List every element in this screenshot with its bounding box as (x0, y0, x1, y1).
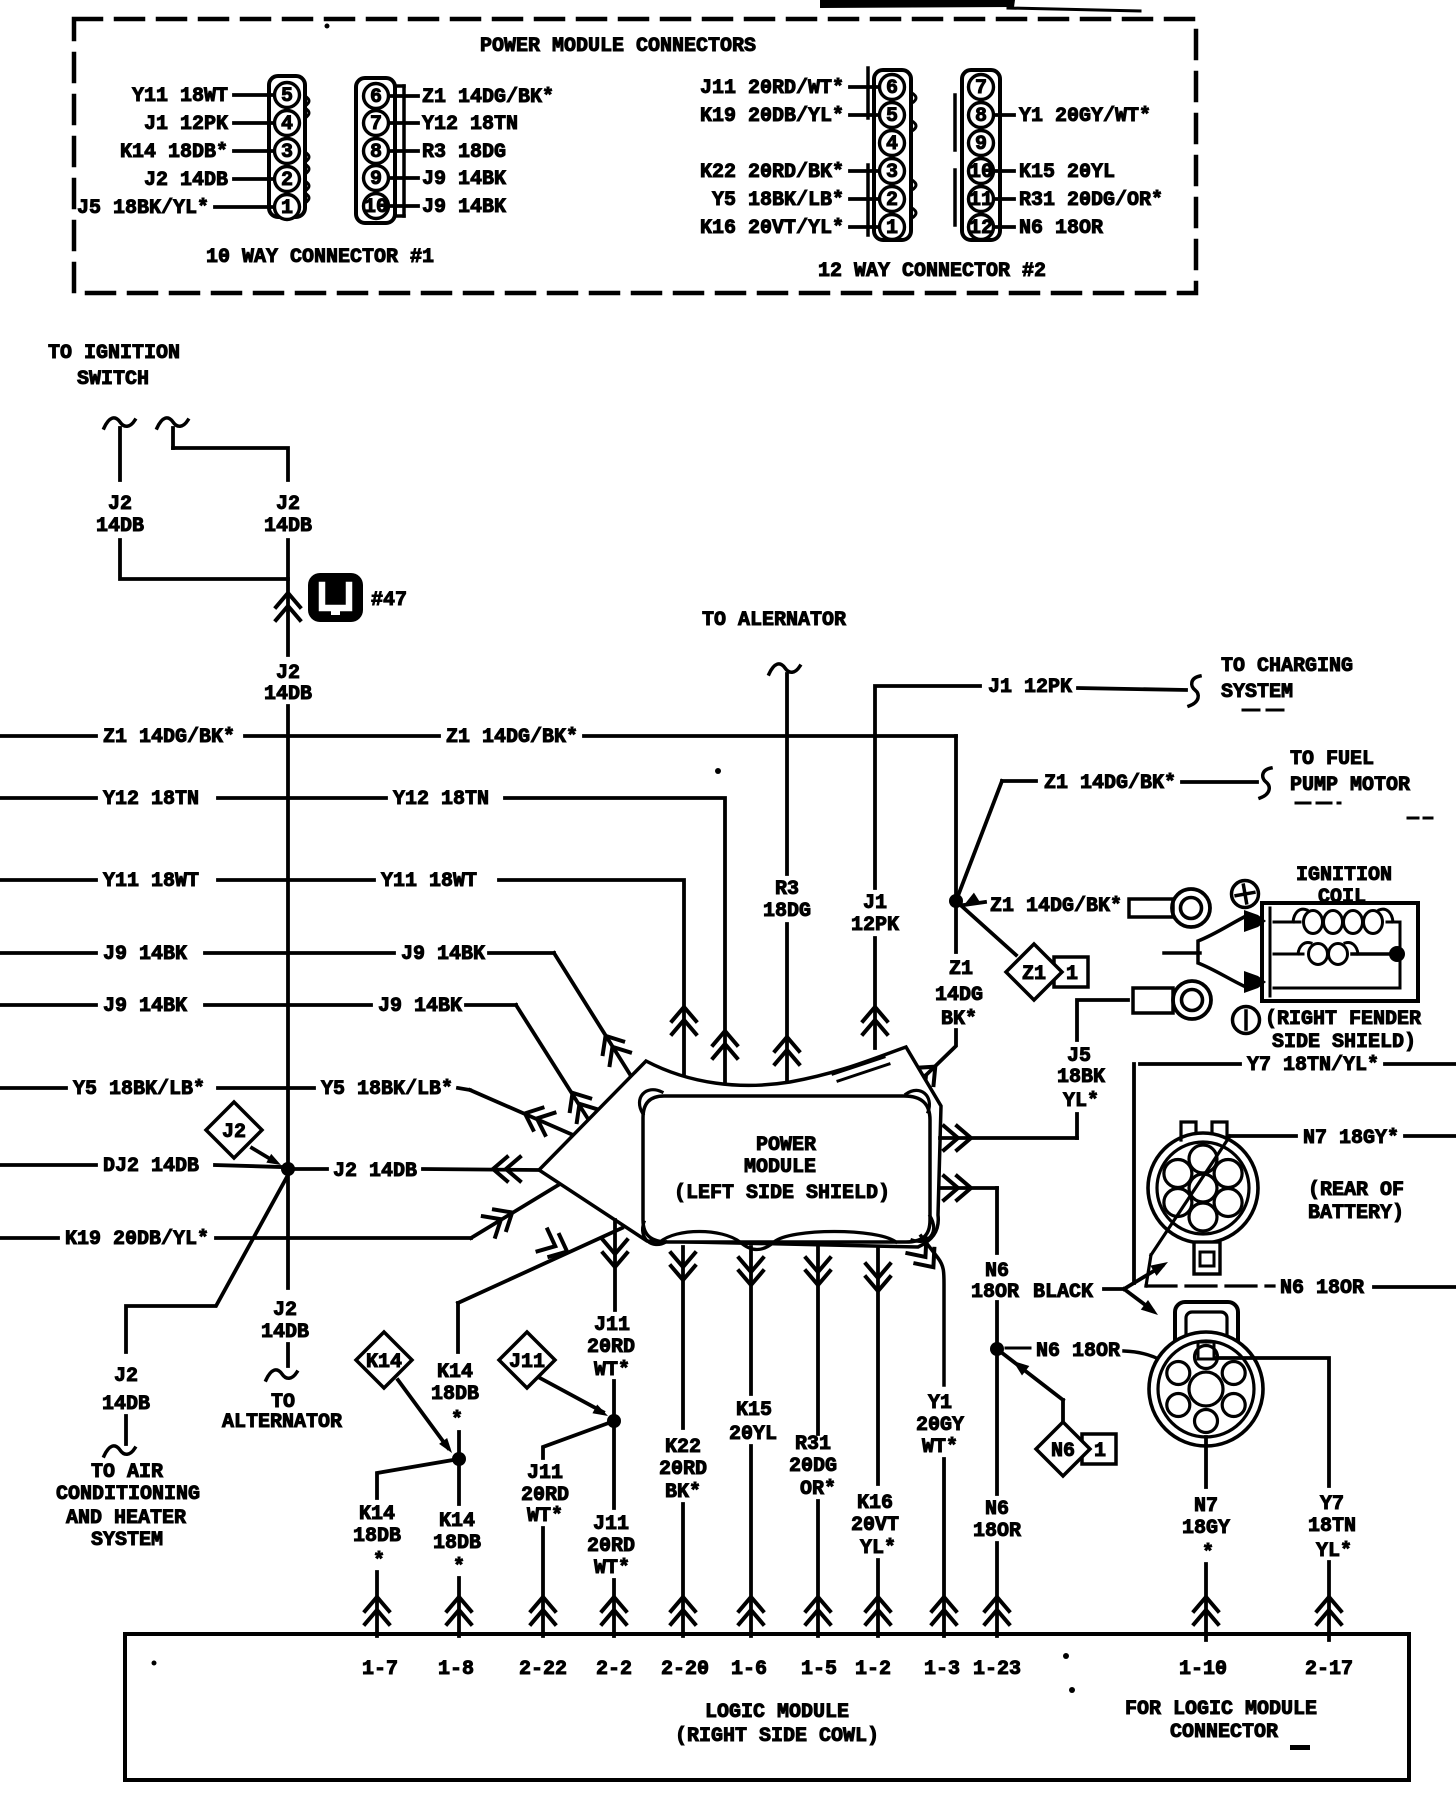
svg-text:PUMP MOTOR: PUMP MOTOR (1290, 774, 1410, 797)
svg-text:Y5 18BK/LB*: Y5 18BK/LB* (712, 189, 844, 212)
svg-text:8: 8 (975, 105, 987, 128)
svg-text:7: 7 (975, 77, 987, 100)
svg-text:(RIGHT FENDER: (RIGHT FENDER (1265, 1008, 1421, 1031)
svg-text:K14: K14 (359, 1503, 395, 1526)
svg-text:AND HEATER: AND HEATER (66, 1507, 186, 1530)
svg-text:18DB: 18DB (433, 1532, 481, 1555)
svg-text:14DG: 14DG (935, 984, 983, 1007)
svg-text:R3: R3 (775, 878, 799, 901)
svg-text:2-20: 2-20 (661, 1658, 709, 1681)
svg-text:YL*: YL* (860, 1537, 896, 1560)
svg-text:BK*: BK* (665, 1481, 701, 1504)
svg-text:N6: N6 (985, 1498, 1009, 1521)
svg-text:N7: N7 (1194, 1495, 1218, 1518)
svg-text:1-8: 1-8 (438, 1658, 474, 1681)
svg-text:18DG: 18DG (763, 900, 811, 923)
svg-text:J2 14DB: J2 14DB (144, 169, 228, 192)
svg-text:2: 2 (886, 189, 898, 212)
svg-text:WT*: WT* (922, 1436, 958, 1459)
svg-text:18DB: 18DB (353, 1525, 401, 1548)
svg-text:Y5 18BK/LB*: Y5 18BK/LB* (73, 1078, 205, 1101)
svg-text:1-10: 1-10 (1179, 1658, 1227, 1681)
svg-text:Y11 18WT: Y11 18WT (103, 870, 199, 893)
svg-text:ALTERNATOR: ALTERNATOR (222, 1411, 342, 1434)
svg-text:WT*: WT* (594, 1359, 630, 1382)
svg-text:IGNITION: IGNITION (1296, 864, 1392, 887)
svg-text:DJ2 14DB: DJ2 14DB (103, 1155, 199, 1178)
svg-text:K19 20DB/YL*: K19 20DB/YL* (65, 1228, 209, 1251)
svg-text:MODULE: MODULE (744, 1156, 816, 1179)
svg-text:10: 10 (364, 196, 388, 219)
svg-text:J9 14BK: J9 14BK (103, 943, 187, 966)
svg-text:9: 9 (370, 168, 382, 191)
svg-text:TO IGNITION: TO IGNITION (48, 342, 180, 365)
svg-text:Z1: Z1 (949, 958, 973, 981)
svg-text:Y7: Y7 (1320, 1493, 1344, 1516)
svg-text:9: 9 (975, 133, 987, 156)
svg-text:Z1 14DG/BK*: Z1 14DG/BK* (1044, 772, 1176, 795)
svg-text:SYSTEM: SYSTEM (1221, 681, 1293, 704)
svg-text:J2: J2 (276, 493, 300, 516)
svg-text:K14 18DB*: K14 18DB* (120, 141, 228, 164)
svg-text:LOGIC MODULE: LOGIC MODULE (705, 1701, 849, 1724)
svg-text:14DB: 14DB (261, 1321, 309, 1344)
svg-text:Y12 18TN: Y12 18TN (393, 788, 489, 811)
svg-text:1: 1 (1094, 1440, 1106, 1463)
svg-text:1: 1 (281, 197, 293, 220)
svg-text:Y1: Y1 (928, 1392, 952, 1415)
svg-text:SIDE SHIELD): SIDE SHIELD) (1272, 1031, 1416, 1054)
svg-text:J2: J2 (108, 493, 132, 516)
svg-text:N6 18OR: N6 18OR (1036, 1340, 1120, 1363)
svg-text:10 WAY CONNECTOR #1: 10 WAY CONNECTOR #1 (206, 246, 434, 269)
svg-text:5: 5 (886, 105, 898, 128)
svg-text:J1 12PK: J1 12PK (988, 676, 1072, 699)
svg-text:Z1 14DG/BK*: Z1 14DG/BK* (990, 895, 1122, 918)
svg-text:N6: N6 (1051, 1440, 1075, 1463)
svg-text:COIL: COIL (1318, 886, 1366, 909)
svg-text:J11: J11 (593, 1513, 629, 1536)
svg-text:14DB: 14DB (264, 515, 312, 538)
svg-text:FOR LOGIC MODULE: FOR LOGIC MODULE (1125, 1698, 1317, 1721)
svg-text:J2: J2 (114, 1365, 138, 1388)
svg-text:18OR: 18OR (971, 1281, 1019, 1304)
svg-text:N6: N6 (985, 1260, 1009, 1283)
svg-text:J11 20RD/WT*: J11 20RD/WT* (700, 77, 844, 100)
svg-text:18DB: 18DB (431, 1383, 479, 1406)
svg-text:SYSTEM: SYSTEM (91, 1529, 163, 1552)
svg-text:Z1 14DG/BK*: Z1 14DG/BK* (422, 86, 554, 109)
svg-text:BLACK: BLACK (1033, 1281, 1093, 1304)
svg-text:N7 18GY*: N7 18GY* (1303, 1127, 1399, 1150)
svg-text:OR*: OR* (800, 1478, 836, 1501)
svg-text:20RD: 20RD (659, 1458, 707, 1481)
svg-text:2-2: 2-2 (596, 1658, 632, 1681)
svg-text:5: 5 (281, 85, 293, 108)
svg-text:20RD: 20RD (521, 1484, 569, 1507)
svg-text:18OR: 18OR (973, 1520, 1021, 1543)
svg-text:Y12 18TN: Y12 18TN (422, 113, 518, 136)
svg-text:K22: K22 (665, 1436, 701, 1459)
svg-text:K19 20DB/YL*: K19 20DB/YL* (700, 105, 844, 128)
svg-text:K22 20RD/BK*: K22 20RD/BK* (700, 161, 844, 184)
svg-text:Z1 14DG/BK*: Z1 14DG/BK* (446, 726, 578, 749)
svg-text:Y1 20GY/WT*: Y1 20GY/WT* (1019, 105, 1151, 128)
svg-text:K14: K14 (439, 1510, 475, 1533)
svg-text:1-5: 1-5 (801, 1658, 837, 1681)
svg-text:18BK: 18BK (1057, 1066, 1105, 1089)
svg-text:J2: J2 (273, 1299, 297, 1322)
svg-text:SWITCH: SWITCH (77, 368, 149, 391)
svg-text:1: 1 (886, 217, 898, 240)
svg-text:TO CHARGING: TO CHARGING (1221, 655, 1353, 678)
svg-text:J9 14BK: J9 14BK (422, 196, 506, 219)
svg-text:J1 12PK: J1 12PK (144, 113, 228, 136)
svg-text:10: 10 (969, 161, 993, 184)
svg-text:Y5 18BK/LB*: Y5 18BK/LB* (321, 1078, 453, 1101)
svg-text:12 WAY CONNECTOR #2: 12 WAY CONNECTOR #2 (818, 260, 1046, 283)
svg-text:WT*: WT* (527, 1505, 563, 1528)
svg-text:11: 11 (969, 189, 993, 212)
svg-text:BK*: BK* (941, 1008, 977, 1031)
svg-text:R31 20DG/OR*: R31 20DG/OR* (1019, 189, 1163, 212)
svg-text:YL*: YL* (1063, 1090, 1099, 1113)
svg-text:J2: J2 (276, 662, 300, 685)
svg-text:J2: J2 (222, 1121, 246, 1144)
svg-text:14DB: 14DB (96, 515, 144, 538)
svg-text:J5 18BK/YL*: J5 18BK/YL* (77, 197, 209, 220)
svg-text:K15 20YL: K15 20YL (1019, 161, 1115, 184)
svg-text:(REAR OF: (REAR OF (1308, 1179, 1404, 1202)
svg-text:BATTERY): BATTERY) (1308, 1202, 1404, 1225)
svg-text:(RIGHT SIDE COWL): (RIGHT SIDE COWL) (675, 1725, 879, 1748)
svg-text:8: 8 (370, 141, 382, 164)
svg-text:2: 2 (281, 169, 293, 192)
svg-text:20VT: 20VT (851, 1514, 899, 1537)
svg-text:J9 14BK: J9 14BK (103, 995, 187, 1018)
svg-text:14DB: 14DB (102, 1393, 150, 1416)
svg-text:K14: K14 (437, 1361, 473, 1384)
svg-text:R3 18DG: R3 18DG (422, 141, 506, 164)
svg-text:K16 20VT/YL*: K16 20VT/YL* (700, 217, 844, 240)
svg-text:TO ALERNATOR: TO ALERNATOR (702, 609, 846, 632)
svg-text:TO FUEL: TO FUEL (1290, 748, 1374, 771)
svg-text:2-22: 2-22 (519, 1658, 567, 1681)
svg-text:20YL: 20YL (729, 1423, 777, 1446)
svg-text:2-17: 2-17 (1305, 1658, 1353, 1681)
svg-text:20GY: 20GY (916, 1414, 964, 1437)
svg-text:1-23: 1-23 (973, 1658, 1021, 1681)
svg-text:J11: J11 (527, 1462, 563, 1485)
svg-text:1-6: 1-6 (731, 1658, 767, 1681)
svg-text:J9 14BK: J9 14BK (401, 943, 485, 966)
svg-text:J1: J1 (863, 892, 887, 915)
svg-text:J9 14BK: J9 14BK (378, 995, 462, 1018)
svg-text:J5: J5 (1067, 1045, 1091, 1068)
svg-text:12PK: 12PK (851, 914, 899, 937)
svg-text:18GY: 18GY (1182, 1517, 1230, 1540)
svg-text:Z1 14DG/BK*: Z1 14DG/BK* (103, 726, 235, 749)
svg-text:1: 1 (1066, 963, 1078, 986)
svg-text:K15: K15 (736, 1399, 772, 1422)
svg-text:#47: #47 (371, 589, 407, 612)
svg-text:14DB: 14DB (264, 683, 312, 706)
svg-text:1-7: 1-7 (362, 1658, 398, 1681)
svg-text:(LEFT SIDE SHIELD): (LEFT SIDE SHIELD) (674, 1182, 890, 1205)
svg-text:J2 14DB: J2 14DB (333, 1160, 417, 1183)
svg-text:18TN: 18TN (1308, 1515, 1356, 1538)
svg-text:R31: R31 (795, 1433, 831, 1456)
svg-text:K14: K14 (366, 1351, 402, 1374)
svg-text:J11: J11 (594, 1314, 630, 1337)
svg-text:*: * (1202, 1542, 1214, 1565)
svg-text:3: 3 (886, 161, 898, 184)
svg-text:20RD: 20RD (587, 1535, 635, 1558)
svg-text:YL*: YL* (1316, 1540, 1352, 1563)
svg-text:4: 4 (886, 133, 898, 156)
svg-text:6: 6 (370, 86, 382, 109)
svg-text:7: 7 (370, 113, 382, 136)
svg-text:CONNECTOR: CONNECTOR (1170, 1721, 1278, 1744)
svg-text:*: * (373, 1550, 385, 1573)
svg-text:1-3: 1-3 (924, 1658, 960, 1681)
svg-text:Y12 18TN: Y12 18TN (103, 788, 199, 811)
svg-text:N6 18OR: N6 18OR (1019, 217, 1103, 240)
svg-text:CONDITIONING: CONDITIONING (56, 1483, 200, 1506)
svg-text:Z1: Z1 (1022, 963, 1046, 986)
svg-text:4: 4 (281, 113, 293, 136)
svg-text:Y11 18WT: Y11 18WT (132, 85, 228, 108)
svg-text:J11: J11 (509, 1351, 545, 1374)
svg-text:Y7 18TN/YL*: Y7 18TN/YL* (1247, 1054, 1379, 1077)
svg-text:20RD: 20RD (587, 1336, 635, 1359)
svg-text:N6 18OR: N6 18OR (1280, 1277, 1364, 1300)
svg-text:K16: K16 (857, 1492, 893, 1515)
svg-text:WT*: WT* (594, 1557, 630, 1580)
svg-text:J9 14BK: J9 14BK (422, 168, 506, 191)
svg-text:6: 6 (886, 77, 898, 100)
svg-text:12: 12 (969, 217, 993, 240)
svg-text:*: * (453, 1556, 465, 1579)
svg-text:20DG: 20DG (789, 1455, 837, 1478)
svg-text:Y11 18WT: Y11 18WT (381, 870, 477, 893)
svg-text:POWER: POWER (756, 1134, 816, 1157)
svg-text:3: 3 (281, 141, 293, 164)
svg-text:TO AIR: TO AIR (91, 1461, 163, 1484)
svg-text:*: * (451, 1409, 463, 1432)
svg-text:POWER MODULE CONNECTORS: POWER MODULE CONNECTORS (480, 35, 756, 58)
svg-text:1-2: 1-2 (855, 1658, 891, 1681)
